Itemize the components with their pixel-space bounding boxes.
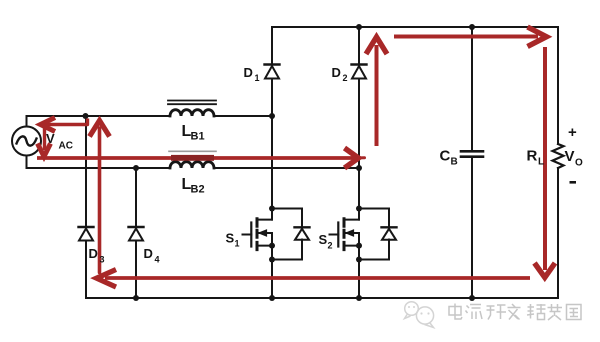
svg-text:R: R [527, 148, 538, 165]
wire bottom AC line (y=168) [27, 167, 360, 169]
ac source VAC [12, 127, 41, 156]
current arrow down into source (vertical) [38, 126, 51, 157]
wire bottom bus rail (y=298) [86, 297, 558, 299]
watermark text 电源研发精英圈 [449, 304, 581, 321]
current arrow up beside D2 (x=376.5) [366, 37, 387, 146]
svg-text:3: 3 [100, 255, 105, 265]
label RL [527, 148, 545, 168]
label VO [565, 148, 584, 169]
node bottom rail / D4 [133, 295, 139, 301]
inductor LB2 [170, 162, 214, 168]
node S1 bottom diode junction [269, 257, 275, 263]
node top rail / CB branch [469, 24, 475, 30]
diode D4 [129, 227, 144, 241]
label D2 [332, 65, 348, 83]
wire top AC line (y=116) [27, 115, 273, 117]
label CB [440, 148, 458, 168]
svg-text:B1: B1 [191, 131, 205, 143]
resistor RL zigzag [553, 144, 564, 168]
label minus [570, 181, 577, 184]
current arrow bottom horizontal left (y=278) [97, 270, 531, 288]
inductor LB1 core bars [168, 101, 216, 105]
svg-text:B: B [451, 157, 458, 168]
wire right rail below resistor [557, 168, 559, 298]
svg-text:+: + [568, 124, 577, 141]
current arrow main horizontal (y=158) [37, 148, 365, 168]
svg-text:V: V [46, 131, 55, 146]
inductor LB2 core bars [169, 150, 216, 152]
wire right bus rail (x=558) [557, 27, 559, 144]
svg-text:S: S [319, 232, 328, 247]
capacitor CB [461, 151, 483, 156]
svg-text:1: 1 [255, 73, 260, 83]
diode D3 [79, 227, 94, 241]
node S2 bottom diode junction [356, 257, 362, 263]
label LB1 [182, 123, 205, 143]
svg-text:D: D [244, 65, 253, 80]
svg-text:O: O [575, 158, 583, 169]
svg-text:D: D [332, 65, 341, 80]
label D1 [244, 65, 260, 83]
body diode of S1 [272, 209, 310, 260]
node top AC / D3 junction [83, 113, 89, 119]
current arrow top right horizontal (y=36.5) [394, 27, 547, 47]
svg-text:2: 2 [328, 241, 333, 251]
svg-text:4: 4 [155, 255, 160, 265]
node bottom rail / CB [469, 295, 475, 301]
node S1 source junction [269, 243, 275, 249]
svg-text:2: 2 [343, 73, 348, 83]
wire AC source top stub [26, 116, 28, 127]
capacitor CB branch wires (x=472) [471, 27, 473, 298]
svg-text:S: S [226, 231, 235, 246]
svg-text:D: D [144, 246, 153, 261]
label D4 [144, 246, 160, 265]
svg-text:D: D [89, 246, 98, 261]
svg-text:C: C [440, 148, 451, 165]
label D3 [89, 246, 105, 265]
wire D2/S2 branch vertical (x=359) [358, 27, 360, 298]
label LB2 [182, 176, 205, 196]
watermark logo bubbles [405, 302, 434, 328]
node S2 drain junction [356, 206, 362, 212]
current arrow left into source (horizontal) [41, 118, 88, 132]
node bottom AC / D4 junction [133, 165, 139, 171]
wire AC source bottom stub [26, 156, 28, 169]
node top rail / D2 branch [356, 24, 362, 30]
svg-text:AC: AC [59, 141, 73, 152]
node bottom rail / S2 [356, 295, 362, 301]
current arrow up beside D3 (x=99.5) [90, 121, 110, 273]
wire top bus rail (y=27) [272, 26, 558, 28]
inductor LB1 [170, 110, 214, 116]
label S1 [226, 231, 240, 249]
current arrow right vertical down (x=545) [535, 47, 556, 278]
body diode of S2 [359, 209, 397, 260]
svg-text:V: V [565, 148, 575, 165]
node bottom rail / S1 [269, 295, 275, 301]
node LB1 / D1 / S1 junction [269, 113, 275, 119]
diode D1 [265, 65, 280, 79]
mosfet S1 [243, 219, 273, 250]
diode D2 [352, 65, 367, 79]
wire D4 branch vertical (x=136) [135, 168, 137, 298]
svg-text:1: 1 [235, 239, 240, 249]
label VAC [46, 131, 73, 152]
mosfet S2 [330, 219, 360, 250]
wire D1/S1 branch vertical (x=272) [271, 27, 273, 298]
node S1 drain junction [269, 206, 275, 212]
inductor LB2 core bar under red line [171, 155, 214, 161]
svg-text:B2: B2 [191, 184, 205, 196]
node S2 source junction [356, 243, 362, 249]
node LB2 / D2 / S2 junction [356, 165, 362, 171]
label S2 [319, 232, 333, 251]
svg-text:L: L [538, 157, 544, 168]
wire D3 branch vertical (x=86) [85, 116, 87, 298]
